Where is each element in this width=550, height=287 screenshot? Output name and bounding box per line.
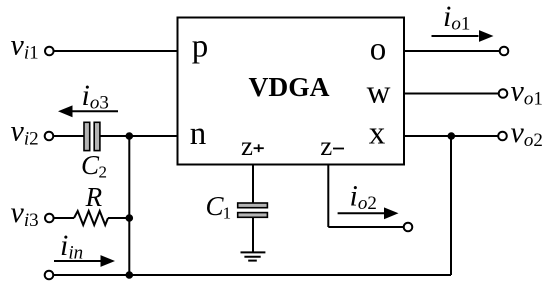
svg-text:z: z (320, 131, 332, 161)
capacitor C2 (84, 122, 100, 150)
pin label z+ (241, 131, 264, 161)
junction node at R (126, 214, 134, 222)
resistor R (74, 211, 108, 225)
wire o to terminal (405, 50, 500, 52)
svg-text:VDGA: VDGA (249, 71, 330, 102)
arrow io1 (432, 30, 494, 42)
wire vi3 to R (54, 217, 74, 219)
terminal vi3 (45, 214, 54, 223)
arrow io2 (338, 207, 399, 219)
arrow iin (54, 255, 115, 267)
terminal bottom left (45, 271, 54, 280)
arrow io3 (58, 105, 118, 117)
svg-text:o: o (370, 32, 387, 68)
junction node on x wire (448, 132, 456, 140)
svg-text:C: C (81, 150, 100, 180)
wire vi1 to p (54, 50, 177, 52)
junction node at n wire (126, 132, 134, 140)
terminal vo2 (498, 132, 507, 141)
wire x to vo2 (405, 135, 498, 137)
svg-text:z: z (241, 131, 253, 161)
wire vertical left junction column (128, 136, 130, 275)
wire z+ pin (252, 165, 254, 204)
wire z- pin vertical (327, 165, 329, 228)
terminal io2 (404, 223, 413, 232)
wire C2 to n (100, 135, 177, 137)
wire bottom rail (54, 274, 451, 276)
terminal vi1 (45, 47, 54, 56)
wire vi2 to C2 (54, 135, 85, 137)
svg-text:1: 1 (223, 203, 232, 222)
svg-text:x: x (369, 116, 386, 152)
svg-text:p: p (192, 29, 209, 65)
ground (241, 252, 266, 260)
wire z- horizontal (328, 226, 403, 228)
terminal vi2 (45, 132, 54, 141)
wire right vertical x to bottom (450, 136, 452, 275)
svg-text:2: 2 (99, 163, 108, 182)
wire w to vo1 (405, 93, 499, 95)
terminal o out (500, 47, 509, 56)
junction node bottom (126, 271, 134, 279)
wire C1 to ground (252, 217, 254, 252)
capacitor C1 (238, 203, 268, 217)
wire R to junction (108, 217, 129, 219)
op-amp block U1 VDGA box (178, 18, 405, 165)
pin label z&#8722; (320, 131, 344, 161)
svg-text:n: n (190, 116, 207, 152)
svg-text:w: w (367, 75, 391, 111)
svg-text:R: R (85, 182, 103, 212)
terminal vo1 (499, 89, 508, 98)
